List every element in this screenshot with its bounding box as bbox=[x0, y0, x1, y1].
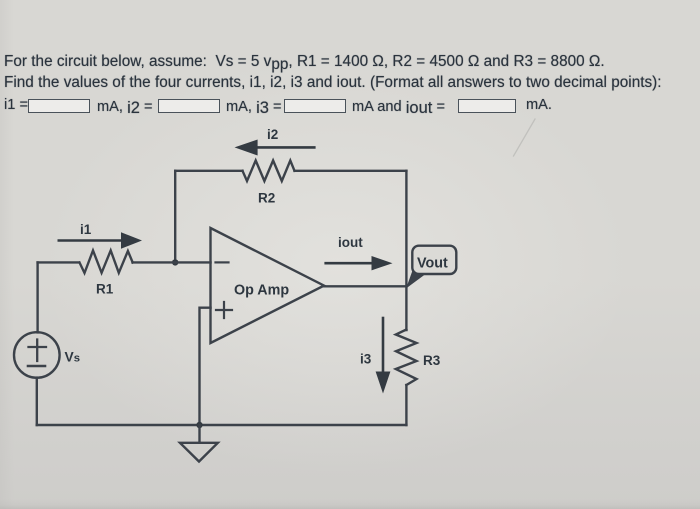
svg-text:i1: i1 bbox=[80, 222, 92, 237]
svg-text:iout: iout bbox=[338, 235, 363, 250]
wire: right vertical lower bbox=[405, 385, 407, 425]
resistor R1 bbox=[80, 251, 133, 274]
node Vout callout tail bbox=[406, 271, 429, 289]
wire: left feedback vertical bbox=[174, 171, 176, 263]
wire: op-amp output to node bbox=[324, 285, 406, 287]
wire: R1 to op-amp inverting input bbox=[133, 261, 211, 263]
op-amp inverting input dash bbox=[216, 261, 229, 263]
current arrow i3 bbox=[376, 318, 391, 394]
resistor R3 bbox=[396, 330, 417, 386]
svg-text:R3: R3 bbox=[423, 353, 441, 368]
node: ground junction bbox=[196, 422, 202, 428]
wire: R1 node down to source bbox=[36, 262, 38, 332]
wire: top rail left segment bbox=[175, 170, 242, 172]
svg-text:Vs: Vs bbox=[65, 350, 81, 365]
source minus mark bbox=[28, 365, 45, 368]
current arrow i1 bbox=[59, 232, 142, 248]
wire: non-inverting input to ground rail bbox=[200, 308, 211, 425]
voltage source Vs bbox=[14, 332, 60, 378]
problem statement line 2 bbox=[4, 74, 662, 92]
current arrow iout bbox=[326, 256, 393, 270]
answer input box iout bbox=[458, 99, 516, 113]
svg-text:Op Amp: Op Amp bbox=[234, 283, 289, 299]
faint scratch mark bbox=[514, 119, 536, 156]
wire: bottom rail bbox=[37, 424, 407, 426]
wire: ground stub bbox=[198, 425, 200, 443]
answer input box i1 bbox=[28, 99, 90, 113]
current arrow i2 bbox=[235, 140, 315, 156]
source plus mark bbox=[29, 340, 47, 362]
svg-text:i2: i2 bbox=[267, 127, 278, 142]
svg-text:R1: R1 bbox=[96, 282, 114, 297]
wire: source to bottom rail bbox=[36, 378, 38, 425]
svg-text:Vout: Vout bbox=[417, 256, 448, 272]
answer input box i2 bbox=[158, 99, 220, 113]
svg-text:i3: i3 bbox=[360, 352, 372, 367]
op-amp non-inverting plus bbox=[216, 302, 232, 318]
wire: from source to R1 bbox=[38, 261, 79, 263]
answer input box i3 bbox=[284, 99, 346, 113]
problem statement line 1 bbox=[4, 53, 605, 71]
op-amp U1 bbox=[211, 228, 325, 343]
svg-text:R2: R2 bbox=[258, 191, 275, 206]
wire: right vertical upper (node to top rail) bbox=[405, 171, 407, 330]
Vout callout box bbox=[412, 246, 456, 274]
wire: top rail right segment bbox=[295, 170, 407, 172]
node: inverting input junction bbox=[172, 259, 178, 265]
resistor R2 bbox=[243, 161, 295, 182]
answer row: i1 label bbox=[4, 97, 28, 113]
ground symbol bbox=[180, 443, 218, 462]
